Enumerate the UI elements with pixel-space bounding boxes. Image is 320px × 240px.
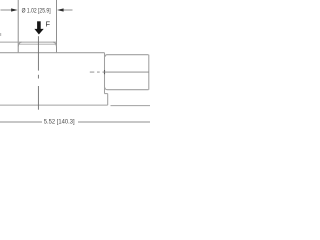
- svg-text:Ø 1.02 [25.9]: Ø 1.02 [25.9]: [22, 8, 51, 15]
- dimension 5.52[140.3] line: [0, 121, 42, 123]
- connector bottom: [105, 88, 149, 90]
- connector right edge: [148, 55, 150, 90]
- dimension Ø1.02[25.9] right arrow: [63, 9, 73, 11]
- vertical centerline: [37, 36, 39, 110]
- button tangent line: [18, 43, 56, 45]
- dimension Ø1.02[25.9] left arrow: [1, 9, 12, 11]
- horizontal centerline of connector: [90, 71, 149, 73]
- force arrow F: [34, 21, 43, 34]
- bottom surface line right part: [111, 105, 151, 107]
- body top line: [0, 52, 105, 54]
- left edge fragment: [0, 33, 1, 36]
- step under body right: [105, 93, 108, 95]
- button corner arcs: [18, 42, 21, 46]
- extension line left / button left edge: [17, 0, 19, 53]
- body right edge: [104, 53, 106, 94]
- svg-text:F: F: [46, 20, 51, 29]
- top surface line: [0, 41, 57, 43]
- bottom surface line: [0, 104, 108, 106]
- extension line right / button right edge: [56, 0, 58, 53]
- connector top: [105, 55, 149, 57]
- svg-text:5.52 [140.3]: 5.52 [140.3]: [44, 118, 75, 125]
